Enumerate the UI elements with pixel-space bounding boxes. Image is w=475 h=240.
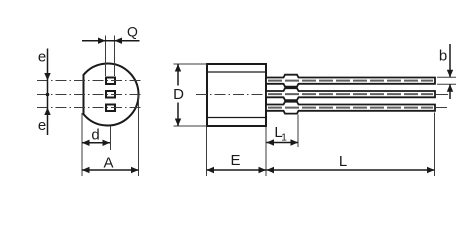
svg-text:E: E [230, 152, 240, 169]
svg-text:A: A [103, 155, 113, 172]
svg-text:L: L [339, 153, 347, 170]
svg-text:b: b [439, 48, 447, 65]
svg-text:Q: Q [127, 24, 138, 40]
svg-text:e: e [38, 117, 46, 134]
svg-text:D: D [173, 86, 184, 103]
svg-text:d: d [91, 127, 99, 144]
svg-text:1: 1 [281, 133, 287, 144]
svg-text:e: e [38, 49, 46, 66]
